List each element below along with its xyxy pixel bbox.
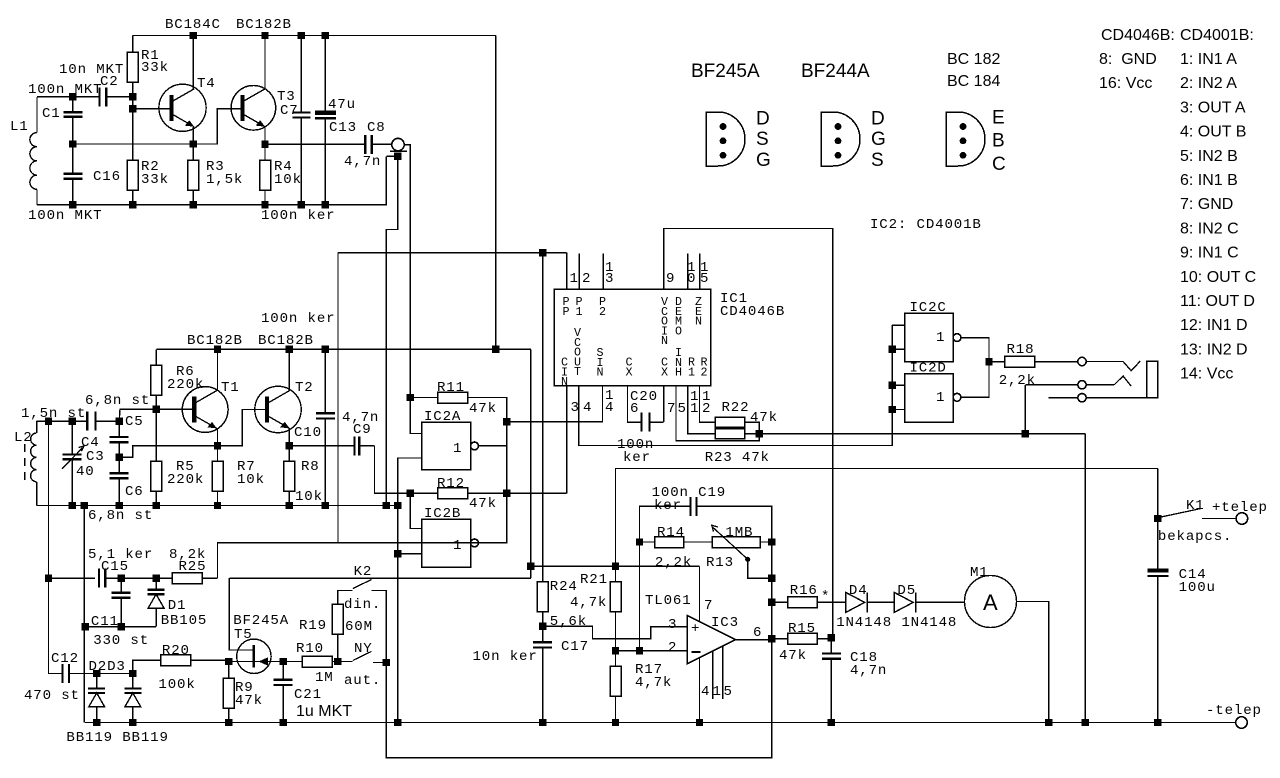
label 100n C19 — [652, 485, 726, 501]
node gnd2 C6 — [116, 502, 123, 509]
wire ground rail — [85, 722, 1236, 724]
wire sleeve drop — [386, 156, 397, 505]
node feedback to pin2 — [636, 647, 643, 654]
terminal -telep circle — [1236, 717, 1248, 729]
label R19 header — [299, 618, 327, 634]
svg-text:G: G — [756, 150, 771, 171]
svg-text:6: 6 — [753, 625, 762, 641]
jack tip spring contact — [1123, 361, 1140, 371]
label 470 st — [24, 688, 80, 704]
wire jack ring wire — [1025, 384, 1077, 386]
pin IC1 pin6 wire + capacitor C20 — [628, 386, 664, 432]
label K1 — [1186, 498, 1205, 514]
svg-text:BC182B: BC182B — [258, 333, 314, 349]
capacitor C18 — [822, 638, 841, 723]
diode D4 — [846, 592, 895, 612]
label R23 47k — [705, 450, 770, 466]
svg-text:C8: C8 — [367, 120, 386, 136]
svg-text:TL061: TL061 — [645, 593, 692, 609]
wire opamp pin4 — [699, 657, 701, 722]
wire K2 gate line — [229, 577, 531, 579]
svg-text:R13: R13 — [706, 555, 734, 571]
svg-text:8: IN2 C: 8: IN2 C — [1180, 220, 1239, 237]
label D4 — [849, 583, 868, 599]
label 100n ker (stage2) — [261, 311, 335, 327]
svg-text:R22: R22 — [722, 400, 750, 416]
wire T4 emitter to T3 base — [193, 109, 242, 144]
node gnd R9 — [225, 719, 232, 726]
wire C5 node to T1 base — [119, 409, 156, 421]
svg-text:33k: 33k — [141, 60, 169, 76]
label R2 — [141, 159, 160, 175]
svg-text:D: D — [871, 108, 885, 129]
node R13 right — [768, 538, 775, 545]
wire tank top — [37, 420, 87, 422]
label T3 — [277, 89, 296, 105]
label R8 value 10k — [295, 489, 323, 505]
svg-text:470 st: 470 st — [24, 688, 80, 704]
svg-text:47k: 47k — [779, 648, 807, 664]
svg-text:bekapcs.: bekapcs. — [1158, 529, 1232, 545]
svg-text:D: D — [756, 108, 770, 129]
svg-text:3: 3 — [605, 271, 614, 287]
label R18 value 2,2k — [999, 373, 1036, 389]
svg-text:10k: 10k — [274, 172, 302, 188]
svg-text:T: T — [574, 365, 582, 379]
label C20 value 100n — [617, 437, 654, 453]
node R6 / T1 base / R5 — [153, 406, 160, 413]
node gnd2 R5 — [153, 502, 160, 509]
label C16 — [93, 169, 121, 185]
svg-text:47k: 47k — [750, 410, 778, 426]
svg-text:6,8n st: 6,8n st — [88, 508, 153, 524]
label R24 value 5,6k — [550, 614, 587, 630]
label 8,2k — [169, 547, 206, 563]
node connector sleeve — [394, 153, 401, 160]
wire T3 emitter — [264, 126, 266, 144]
wire emitter bus stage1 left — [73, 143, 194, 145]
svg-text:R21: R21 — [580, 572, 608, 588]
svg-text:R10: R10 — [296, 641, 324, 657]
svg-text:33k: 33k — [141, 172, 169, 188]
svg-text:11: OUT D: 11: OUT D — [1180, 293, 1255, 310]
wire C5 bottom to emitter bus — [119, 446, 217, 458]
label IC1 R1 — [688, 356, 696, 380]
label 6,8n st (C5) — [85, 393, 150, 409]
node C1/C16 — [69, 140, 76, 147]
terminal +telep circle — [1236, 513, 1248, 525]
meter M1 — [965, 576, 1017, 628]
node gnd2 sleeve drop — [383, 502, 390, 509]
label R1 value 33k — [141, 60, 169, 76]
node K2 contact — [383, 659, 390, 666]
label R24 — [550, 579, 578, 595]
transistor T5 JFET — [229, 639, 283, 673]
jack sleeve circle — [1078, 394, 1086, 402]
svg-text:2,2k: 2,2k — [999, 373, 1036, 389]
wire IC2D lower input — [892, 409, 905, 411]
svg-text:ker: ker — [654, 498, 682, 514]
svg-text:CD4046B: CD4046B — [720, 304, 785, 320]
svg-text:7: 7 — [667, 401, 676, 417]
node gnd C13 — [322, 201, 329, 208]
node gnd D3 — [129, 719, 136, 726]
label 1N4148 1N4148 — [836, 615, 957, 631]
pin IC1 pin14 label — [605, 388, 614, 416]
label pin6 opamp — [753, 625, 762, 641]
svg-text:1M: 1M — [315, 670, 334, 686]
label R18 — [1007, 342, 1035, 358]
resistor R21 — [610, 566, 621, 651]
node gnd R4 — [261, 201, 268, 208]
svg-text:-telep: -telep — [1206, 703, 1262, 719]
inductor L2 core dashes — [24, 444, 26, 480]
label IC2A 1 — [453, 441, 462, 457]
wire varicap drive from IC2B out — [338, 253, 507, 543]
capacitor C5 — [110, 421, 129, 457]
label pin3 opamp — [668, 617, 677, 633]
jack body — [1147, 361, 1158, 397]
gate IC2A box — [422, 422, 471, 470]
node R16 left — [768, 599, 775, 606]
varicap D1 — [148, 578, 165, 627]
svg-text:C13: C13 — [329, 120, 357, 136]
label pin13 — [605, 260, 614, 287]
label pinlist 4: OUT B — [1180, 124, 1246, 141]
label pinlist 10: OUT C — [1180, 269, 1256, 286]
resistor R15 — [772, 633, 832, 644]
label R14 — [657, 525, 685, 541]
svg-text:C4: C4 — [81, 435, 100, 451]
svg-text:1: 1 — [713, 684, 722, 700]
svg-text:4: 4 — [701, 684, 710, 700]
label pin2 opamp — [668, 640, 677, 656]
wire output loop to K2 — [386, 640, 772, 758]
label pinlist 6: IN1 B — [1180, 172, 1238, 189]
label IC2A — [424, 409, 461, 425]
label pin11 — [690, 389, 699, 417]
svg-text:BC 182: BC 182 — [947, 51, 1000, 68]
svg-text:S: S — [871, 150, 884, 171]
label C10 — [294, 425, 322, 441]
svg-text:1u MKT: 1u MKT — [296, 703, 352, 720]
label R3 value 1,5k — [206, 172, 243, 188]
label IC2B 1 — [453, 538, 462, 554]
label R17 — [635, 662, 663, 678]
svg-text:BC184C: BC184C — [165, 17, 221, 33]
svg-text:2: 2 — [582, 271, 591, 287]
pin opamp pin1 stub — [712, 651, 714, 699]
label IC2D 1 — [936, 390, 945, 406]
svg-text:1: 1 — [453, 441, 462, 457]
wire opamp output — [735, 639, 772, 641]
svg-text:ker: ker — [623, 450, 651, 466]
switch K1 arm — [1161, 509, 1201, 517]
wire T4 emitter — [192, 127, 194, 144]
svg-text:G: G — [871, 129, 886, 150]
label M1 — [970, 565, 989, 581]
svg-text:T2: T2 — [295, 380, 314, 396]
wire IC2B lower input — [398, 553, 422, 555]
label pinlist 2: IN2 A — [1180, 75, 1237, 92]
label IC1 PP — [563, 295, 571, 319]
wire IC2A output — [478, 422, 506, 446]
label 330 st — [93, 633, 149, 649]
node gnd gate drop — [394, 719, 401, 726]
resistor R8 — [284, 446, 295, 506]
svg-text:1: IN1 A: 1: IN1 A — [1180, 51, 1237, 68]
svg-text:IC2C: IC2C — [910, 300, 947, 316]
svg-text:3: 3 — [571, 400, 580, 416]
label IC2D — [910, 361, 947, 377]
label IC1 R2 — [701, 356, 709, 380]
label IC1 CX1 — [626, 356, 634, 380]
label C18 — [850, 650, 878, 666]
resistor R6 — [151, 349, 162, 409]
label IC1 CIN — [561, 356, 569, 390]
svg-text:1: 1 — [690, 401, 699, 417]
svg-text:C10: C10 — [294, 425, 322, 441]
svg-text:47u: 47u — [328, 97, 356, 113]
node gnd C21 — [280, 719, 287, 726]
pin IC1 pin5 wire — [676, 386, 759, 441]
svg-text:2: IN2 A: 2: IN2 A — [1180, 75, 1237, 92]
svg-text:C: C — [992, 154, 1006, 175]
pin IC1 pin13 stub — [602, 253, 604, 289]
node gnd opamp pin4 — [696, 719, 703, 726]
svg-text:13: IN2 D: 13: IN2 D — [1180, 341, 1248, 358]
gate IC2D output bubble — [953, 393, 961, 401]
label pinlist 1: IN1 A — [1180, 51, 1237, 68]
label pinlist 7: GND — [1180, 196, 1233, 213]
svg-text:100n MKT: 100n MKT — [28, 82, 102, 98]
svg-text:R11: R11 — [437, 380, 465, 396]
capacitor C2 — [62, 87, 133, 106]
diode D5 — [894, 592, 964, 612]
node T2 emitter / R8 — [286, 442, 293, 449]
svg-text:9: 9 — [666, 271, 675, 287]
label 5,1 ker — [88, 547, 153, 563]
wire IC2C+D outputs join — [961, 338, 989, 398]
label C17 — [561, 639, 589, 655]
varicap D3 — [124, 674, 141, 723]
resistor R11 wire+body — [410, 392, 506, 422]
svg-text:C7: C7 — [280, 103, 299, 119]
svg-text:6: IN1 B: 6: IN1 B — [1180, 172, 1238, 189]
capacitor C21 — [274, 662, 293, 723]
label C14 — [1179, 567, 1207, 583]
resistor R7 — [212, 446, 223, 506]
capacitor C11 — [112, 578, 131, 627]
svg-text:1: 1 — [936, 330, 945, 346]
label pinlist 14: Vcc — [1180, 366, 1233, 383]
varicap D2 — [88, 674, 105, 723]
svg-text:2: 2 — [701, 365, 709, 379]
label 1MB — [725, 525, 753, 541]
wire T2 emitter to C9 — [289, 445, 354, 447]
capacitor C13 electrolytic — [315, 36, 336, 205]
label BC182B — [236, 17, 292, 33]
label C8 value 4,7n — [344, 154, 381, 170]
resistor R18 — [989, 356, 1078, 367]
wire T4 collector — [192, 36, 194, 89]
svg-text:BC182B: BC182B — [187, 333, 243, 349]
pin IC1 pin10 stub — [687, 253, 689, 289]
label R11 — [437, 380, 465, 396]
node T5/C21/R10 — [280, 658, 287, 665]
wire pin1 corner down — [566, 253, 568, 289]
node R14 left — [636, 538, 643, 545]
gate IC2B output bubble — [471, 539, 479, 547]
label R12 value 47k — [469, 496, 497, 512]
svg-text:7: 7 — [704, 598, 713, 614]
label R14 value 2,2k — [655, 555, 692, 571]
node opamp output — [768, 635, 775, 642]
node stage1 rail / T3 collector — [261, 32, 268, 39]
svg-text:330 st: 330 st — [93, 633, 149, 649]
node gate outputs — [985, 358, 992, 365]
svg-text:N: N — [661, 334, 669, 348]
svg-text:+: + — [691, 621, 700, 637]
pin IC1 pin11 wire + resistor R23 — [688, 386, 759, 439]
capacitor C10 — [316, 349, 335, 505]
svg-text:7: GND: 7: GND — [1180, 196, 1233, 213]
label R11 value 47k — [469, 401, 497, 417]
node T5 source node — [225, 658, 232, 665]
resistor R10 — [283, 656, 337, 667]
wire T3 collector — [264, 36, 266, 90]
wire sleeve to gnd rail — [386, 155, 397, 157]
label C18 value 4,7n — [850, 663, 887, 679]
wire T1 emitter to T2 base — [218, 410, 268, 446]
node R11 left — [407, 394, 414, 401]
node gnd C18 — [828, 719, 835, 726]
label pinlist 9: IN1 C — [1180, 245, 1239, 262]
node D2 top — [93, 670, 100, 677]
svg-text:R24: R24 — [550, 579, 578, 595]
wire IC2C upper input — [892, 324, 905, 326]
svg-text:CD4001B:: CD4001B: — [1180, 27, 1254, 44]
node tank / C3 — [68, 417, 75, 424]
svg-text:R8: R8 — [301, 459, 320, 475]
label TL061 — [645, 593, 692, 609]
pin IC1 pin15 stub — [699, 253, 701, 289]
resistor R12 wire+body — [410, 488, 566, 499]
node gnd2 C10 — [322, 502, 329, 509]
label 16: Vcc — [1099, 75, 1152, 92]
label opamp minus — [692, 651, 701, 653]
label IC1 VCOIN — [661, 295, 669, 348]
wire K1 contact — [1202, 518, 1236, 520]
svg-text:IC2A: IC2A — [424, 409, 461, 425]
svg-text:+telep: +telep — [1212, 500, 1268, 516]
label IC1 DEMO — [675, 295, 683, 338]
svg-text:NY: NY — [354, 641, 373, 657]
wire connector to IC2A input (down) — [404, 145, 410, 398]
label C2 — [100, 74, 119, 90]
node gnd R2 — [129, 201, 136, 208]
svg-text:100u: 100u — [1179, 580, 1216, 596]
label R3 — [206, 159, 225, 175]
label R21 value 4,7k — [570, 595, 607, 611]
label pinlist 12: IN1 D — [1180, 317, 1248, 334]
label C20 value ker — [623, 450, 651, 466]
pin opamp pin5 stub — [722, 646, 724, 699]
label CD4001B: — [1180, 27, 1254, 44]
node stage1 rail / C7 — [298, 32, 305, 39]
label NY — [354, 641, 373, 657]
label C7 — [280, 103, 299, 119]
label C13 — [329, 120, 357, 136]
svg-text:4,7n: 4,7n — [850, 663, 887, 679]
label R6 — [176, 364, 195, 380]
node stage1 rail / C13 — [322, 32, 329, 39]
wire stage2 rail drop to opamp rail — [530, 349, 532, 566]
svg-text:2: 2 — [668, 640, 677, 656]
svg-text:BF245A: BF245A — [691, 61, 760, 82]
pin IC1 pin12 wire + resistor R22 — [700, 386, 760, 434]
svg-text:40: 40 — [76, 464, 95, 480]
capacitor C14 electrolytic — [1147, 568, 1168, 722]
svg-text:R20: R20 — [162, 643, 190, 659]
svg-text:14: Vcc: 14: Vcc — [1180, 366, 1233, 383]
svg-text:100n MKT: 100n MKT — [28, 208, 102, 224]
label D2 D3 — [89, 659, 126, 675]
gate IC2A output bubble — [471, 442, 479, 450]
svg-text:47k: 47k — [469, 401, 497, 417]
node stage2 rail / T2 collector — [286, 346, 293, 353]
label pinlist 5: IN2 B — [1180, 148, 1238, 165]
label R25 — [179, 559, 207, 575]
svg-text:L1: L1 — [10, 119, 29, 135]
transistor T2 — [255, 386, 301, 432]
svg-text:220k: 220k — [167, 472, 204, 488]
svg-text:1: 1 — [453, 538, 462, 554]
svg-text:O: O — [675, 324, 683, 338]
node R15 right / VCOin net — [828, 634, 835, 641]
wire C12 drop — [49, 578, 63, 673]
label C8 — [367, 120, 386, 136]
svg-text:C2: C2 — [100, 74, 119, 90]
node supply/R21 — [612, 563, 619, 570]
wire IC2B output — [478, 446, 506, 543]
wire T1 emitter — [217, 428, 219, 446]
svg-text:C3: C3 — [86, 449, 105, 465]
node gnd R17 — [612, 719, 619, 726]
wire stage2 ground rail — [37, 505, 398, 507]
wire R12 to IC2B input — [410, 493, 421, 528]
node IC2B input on gnd drop — [394, 550, 401, 557]
resistor R3 — [188, 144, 199, 205]
svg-text:BB105: BB105 — [161, 613, 208, 629]
resistor R14 — [640, 537, 713, 548]
resistor R24 — [537, 253, 548, 627]
svg-text:5: 5 — [678, 401, 687, 417]
label 6,8n st (C6) — [88, 508, 153, 524]
transistor T3 — [231, 86, 276, 131]
wire supply to opamp pin7 — [699, 566, 701, 617]
node IC2D input upper — [888, 382, 895, 389]
switch K2 lower arm — [353, 651, 372, 660]
svg-text:N: N — [597, 366, 605, 380]
label R10 value 1M — [315, 670, 334, 686]
svg-text:IC3: IC3 — [711, 615, 739, 631]
svg-text:N: N — [695, 315, 703, 329]
wire gnd drop to bottom rail — [397, 506, 399, 723]
wire T3 emitter to C8 — [265, 143, 365, 145]
svg-text:L2: L2 — [14, 430, 33, 446]
wire T2 emitter — [288, 428, 290, 446]
